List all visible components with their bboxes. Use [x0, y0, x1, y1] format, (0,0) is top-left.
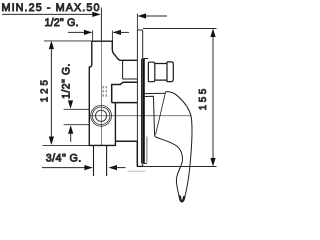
handle tail rounded tip	[180, 197, 184, 202]
arrowhead right at valve axis	[92, 12, 101, 17]
arrowhead up	[49, 41, 54, 50]
escutcheon thick band line 2	[143, 58, 145, 163]
bottom extension line of 125	[43, 144, 90, 146]
right arrow of top pipe width	[113, 30, 122, 35]
svg-text:125: 125	[39, 79, 50, 102]
leader down arrow	[70, 101, 72, 106]
extension tick right of top pipe	[111, 31, 113, 42]
leader line with right arrow (top pipe left)	[68, 31, 86, 33]
handle outline	[145, 92, 192, 202]
dimension line MIN.25-MAX.50 left part	[2, 13, 96, 15]
top extension line of 155	[143, 28, 217, 30]
arrowhead up	[210, 29, 215, 38]
knob end cap	[167, 62, 173, 82]
svg-text:3/4" G.: 3/4" G.	[46, 153, 82, 165]
up arrow under lower port line	[68, 125, 73, 134]
horizontal centerline through cartridge	[90, 115, 191, 117]
dimension 125 vertical line	[50, 44, 52, 142]
wall front line	[142, 30, 144, 167]
dimension 155 vertical line	[212, 32, 214, 164]
dimension line MIN.25-MAX.50 right part	[142, 15, 168, 17]
escutcheon thick band line 1	[141, 59, 143, 164]
wall top cap	[137, 29, 142, 31]
knob barrel	[155, 64, 168, 81]
arrowhead down	[49, 137, 54, 146]
dashed stem detail on body	[103, 86, 106, 97]
handle arm diagonal edge	[156, 93, 166, 135]
faint shadow line below escutcheon	[128, 170, 146, 172]
mid block (diverter housing)	[112, 82, 138, 102]
svg-text:MIN.25 - MAX.50: MIN.25 - MAX.50	[2, 2, 100, 14]
knob base ring	[148, 62, 154, 81]
valve axis extension line	[100, 8, 102, 42]
bottom extension line of 155	[143, 166, 216, 168]
handle neck bottom and arm left edge	[145, 96, 156, 137]
svg-text:155: 155	[198, 88, 209, 110]
upper-right notch vertical	[122, 60, 124, 79]
vertical centerline of body	[100, 41, 102, 145]
svg-text:1/2" G.: 1/2" G.	[60, 64, 72, 100]
lower right step	[115, 140, 137, 142]
upper port extension line	[64, 108, 90, 110]
bottom pipe left edge	[93, 145, 95, 176]
upper-right notch bottom	[123, 78, 138, 80]
wall bottom cap	[137, 165, 144, 167]
cartridge circle mid	[92, 107, 110, 125]
wall back line	[136, 30, 138, 141]
escutcheon caps	[144, 59, 148, 164]
cartridge circle outer	[91, 105, 112, 126]
bottom pipe right edge	[106, 145, 108, 176]
top extension line of 125	[44, 40, 92, 42]
right arrow of bottom pipe width	[109, 165, 118, 170]
arrowhead down	[210, 158, 215, 167]
valve body left outline	[89, 41, 115, 145]
extension tick left of top pipe	[92, 31, 94, 42]
lower port extension line	[64, 124, 90, 126]
lower right wall-side edge	[136, 141, 138, 166]
wall top extension tick	[136, 14, 138, 30]
svg-text:1/2" G.: 1/2" G.	[45, 17, 79, 29]
top pipe top edge and right chamfer	[92, 41, 138, 60]
arrowhead left at wall back face	[138, 13, 147, 18]
leader line with right arrow (bottom pipe left)	[42, 167, 89, 169]
escutcheon front lower segment	[146, 137, 148, 163]
cartridge circle inner	[96, 110, 107, 121]
